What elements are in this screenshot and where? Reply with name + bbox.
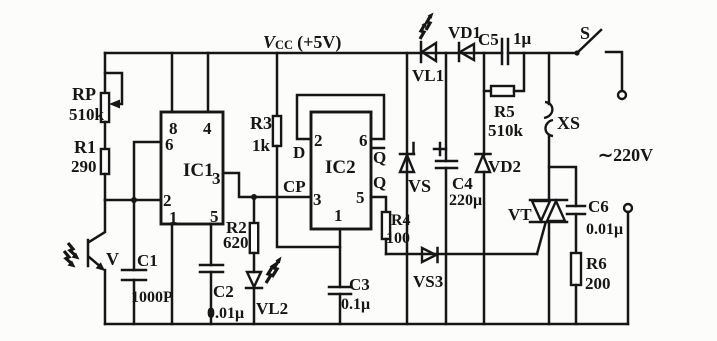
LED VL2 emission arrow 2 head bbox=[276, 257, 282, 264]
wire triac VT to ground rail bbox=[548, 222, 551, 324]
wire VD2 to ground rail bbox=[483, 172, 486, 324]
wire switch fixed contact bbox=[606, 52, 622, 91]
triac VT triangle down bbox=[532, 201, 550, 221]
LED VL2 cathode bar bbox=[246, 287, 262, 290]
diode VS3 cathode bar bbox=[436, 248, 439, 262]
svg-text:3: 3 bbox=[313, 190, 322, 209]
svg-text:1000P: 1000P bbox=[131, 289, 173, 306]
capacitor C5 plates bbox=[502, 39, 508, 64]
svg-text:VS3: VS3 bbox=[413, 272, 443, 291]
svg-text:CP: CP bbox=[283, 177, 306, 196]
triac VT bottom bar bbox=[530, 221, 567, 224]
wire IC2 pin 1 to C3 bbox=[339, 229, 342, 287]
wire gate line horizontal bbox=[386, 253, 537, 256]
wire VL2 to ground rail bbox=[253, 288, 256, 324]
svg-text:4: 4 bbox=[203, 119, 212, 138]
wire branch to C6 bbox=[549, 167, 576, 206]
svg-text:VCC(+5V): VCC(+5V) bbox=[263, 32, 341, 53]
svg-text:C5: C5 bbox=[478, 30, 499, 49]
thyristor VS triangle bbox=[400, 155, 414, 172]
diode VD1 triangle bbox=[460, 44, 474, 60]
junction output node dot bbox=[251, 194, 257, 200]
wire feedback loop Q-bar to D bbox=[297, 95, 384, 139]
diode VD2 cathode bar bbox=[476, 153, 491, 156]
wire RP to R1 bbox=[104, 122, 107, 149]
socket XS lower hook bbox=[546, 120, 554, 136]
thyristor VS cathode bar bbox=[400, 153, 414, 156]
wire VD2 top bbox=[483, 53, 486, 155]
resistor R2 body bbox=[250, 223, 258, 253]
svg-text:0.01μ: 0.01μ bbox=[586, 221, 623, 238]
wire XS top bbox=[548, 53, 551, 104]
wire XS to triac VT bbox=[548, 135, 551, 200]
LED VL1 cathode bar bbox=[420, 42, 423, 62]
svg-text:290: 290 bbox=[71, 157, 97, 176]
svg-text:VT: VT bbox=[508, 205, 532, 224]
resistor R5 body bbox=[491, 86, 514, 96]
socket XS upper hook bbox=[544, 102, 552, 118]
op-amp IC2 box (D flip-flop) bbox=[311, 112, 371, 229]
svg-text:Q: Q bbox=[373, 148, 386, 167]
svg-text:R1: R1 bbox=[74, 137, 96, 157]
svg-text:1k: 1k bbox=[252, 136, 271, 155]
op-amp IC1 box (555 timer) bbox=[161, 112, 223, 224]
svg-text:V: V bbox=[106, 249, 119, 269]
diode VS3 triangle bbox=[422, 248, 436, 262]
svg-text:1μ: 1μ bbox=[513, 29, 532, 48]
triac VT top bar bbox=[530, 199, 567, 202]
phototransistor V base bar bbox=[87, 240, 90, 266]
svg-text:C1: C1 bbox=[137, 251, 158, 270]
svg-text:510k: 510k bbox=[488, 121, 524, 140]
LED VL2 emission arrow 2 bbox=[272, 260, 279, 277]
svg-text:0.1μ: 0.1μ bbox=[341, 296, 370, 313]
thyristor VS vertical wire bbox=[406, 53, 409, 324]
svg-text:620: 620 bbox=[223, 233, 249, 252]
terminal circle mains top bbox=[618, 91, 626, 99]
overbar of Q-bar bbox=[372, 147, 384, 150]
svg-text:R5: R5 bbox=[494, 102, 515, 121]
resistor R5 left lead bbox=[484, 90, 491, 93]
svg-text:C3: C3 bbox=[349, 275, 370, 294]
capacitor C2 plates bbox=[200, 265, 223, 272]
resistor R4 body bbox=[382, 212, 390, 239]
svg-text:RP: RP bbox=[72, 84, 96, 104]
svg-text:VL1: VL1 bbox=[412, 66, 444, 85]
wire R6 to ground rail bbox=[575, 285, 578, 324]
svg-text:6: 6 bbox=[359, 131, 368, 150]
switch S pivot dot bbox=[574, 50, 579, 55]
phototransistor V light arrow 1 head bbox=[72, 253, 80, 260]
LED VL1 emission arrow 1 bbox=[426, 15, 431, 30]
resistor R5 right lead bbox=[514, 53, 524, 91]
diode VD1 cathode bar bbox=[458, 43, 461, 61]
svg-text:R6: R6 bbox=[586, 254, 607, 273]
svg-text:VD2: VD2 bbox=[488, 157, 521, 176]
wire node A up to IC1 pin 6 bbox=[134, 142, 161, 200]
LED VL1 emission arrow 2 head bbox=[422, 22, 428, 28]
svg-text:C6: C6 bbox=[588, 197, 609, 216]
wire R2 to VL2 bbox=[253, 253, 256, 272]
LED VL1 triangle bbox=[422, 43, 436, 61]
resistor R6 body bbox=[571, 253, 581, 285]
wire C3 to ground rail bbox=[339, 294, 342, 324]
wire emitter to ground rail bbox=[104, 270, 107, 324]
svg-text:VD1: VD1 bbox=[448, 23, 481, 42]
svg-text:0.01μ: 0.01μ bbox=[207, 305, 244, 322]
svg-text:6: 6 bbox=[165, 135, 174, 154]
wire C4 to ground rail bbox=[445, 168, 448, 324]
svg-text:1: 1 bbox=[334, 206, 343, 225]
wire output node to R2 bbox=[253, 197, 256, 223]
svg-text:3: 3 bbox=[212, 169, 221, 188]
svg-text:∼220V: ∼220V bbox=[598, 145, 653, 165]
LED VL1 emission arrow 2 bbox=[420, 24, 425, 39]
phototransistor V light arrow 2 bbox=[64, 251, 72, 264]
junction node A dot bbox=[131, 197, 137, 203]
phototransistor V light arrow 2 head bbox=[68, 261, 76, 268]
potentiometer RP wiper arrowhead bbox=[109, 100, 120, 109]
wire IC2 pin 5 Q to R4 bbox=[371, 197, 386, 212]
svg-text:XS: XS bbox=[557, 113, 580, 133]
svg-text:R3: R3 bbox=[250, 113, 272, 133]
potentiometer RP body bbox=[101, 93, 109, 122]
wire C1 to ground rail bbox=[133, 280, 136, 324]
svg-text:C2: C2 bbox=[213, 282, 234, 301]
wire C4 top bbox=[445, 53, 448, 161]
wire gate diagonal to triac bbox=[537, 223, 546, 254]
capacitor C4 plus sign bbox=[434, 143, 446, 155]
wire R1 to node A bbox=[104, 174, 107, 200]
svg-text:IC1: IC1 bbox=[183, 160, 214, 181]
wire Vcc top rail right segment bbox=[508, 52, 578, 55]
potentiometer RP wiper wire bbox=[105, 73, 122, 104]
LED VL2 emission arrow 1 bbox=[266, 266, 273, 283]
wire C2 to ground rail bbox=[210, 272, 213, 324]
svg-text:S: S bbox=[580, 23, 590, 43]
switch S blade bbox=[577, 30, 601, 53]
wire mains bottom terminal to ground rail bbox=[627, 212, 630, 324]
svg-text:C4: C4 bbox=[452, 174, 473, 193]
wire IC1 pin 8 to Vcc bbox=[171, 53, 174, 112]
svg-text:200: 200 bbox=[585, 274, 611, 293]
svg-text:IC2: IC2 bbox=[325, 157, 356, 178]
triac VT triangle up bbox=[547, 201, 565, 221]
phototransistor V collector wire bbox=[89, 200, 105, 242]
resistor R3 body bbox=[273, 116, 281, 146]
wire left vertical top bbox=[104, 53, 107, 93]
capacitor C3 plates bbox=[329, 287, 351, 294]
terminal circle mains bottom bbox=[624, 204, 632, 212]
svg-text:D: D bbox=[293, 143, 305, 162]
phototransistor V emitter wire bbox=[89, 257, 102, 268]
LED VL1 emission arrow 1 head bbox=[428, 13, 434, 19]
LED VL2 emission arrow 1 head bbox=[270, 263, 276, 270]
svg-text:220μ: 220μ bbox=[449, 192, 482, 209]
svg-text:510k: 510k bbox=[69, 105, 105, 124]
wire R3 to IC2 pin 1 and C3 bbox=[277, 146, 340, 247]
wire C6 to R6 bbox=[575, 214, 578, 253]
capacitor C6 plates bbox=[567, 206, 585, 214]
capacitor C4 plates bbox=[436, 161, 457, 168]
wire bottom ground rail bbox=[105, 323, 628, 326]
svg-text:VL2: VL2 bbox=[256, 299, 288, 318]
wire node A down to C1 bbox=[133, 200, 136, 270]
svg-text:VS: VS bbox=[408, 176, 431, 196]
phototransistor V light arrow 1 bbox=[68, 243, 76, 256]
svg-text:5: 5 bbox=[356, 188, 365, 207]
thyristor VS gate hook bbox=[412, 143, 415, 154]
svg-text:Q: Q bbox=[373, 173, 386, 192]
wire IC1 pin 5 to C2 bbox=[210, 224, 213, 265]
capacitor C1 plates bbox=[122, 270, 146, 280]
wire Vcc top rail left segment bbox=[105, 52, 502, 55]
LED VL2 triangle bbox=[247, 272, 261, 287]
resistor R1 body bbox=[101, 149, 109, 174]
diode VD2 triangle bbox=[476, 155, 490, 172]
wire IC1 pin 4 to Vcc bbox=[207, 53, 210, 112]
svg-text:2: 2 bbox=[314, 131, 323, 150]
resistor R3 top wire bbox=[276, 53, 279, 116]
phototransistor V emitter arrowhead bbox=[96, 262, 105, 271]
wire node A to IC1 pin 2 bbox=[105, 199, 161, 202]
wire IC1 pin 1 to ground rail bbox=[171, 224, 174, 324]
wire IC1 pin 3 output to IC2 CP bbox=[223, 173, 311, 197]
wire R4 to gate line bbox=[385, 239, 388, 254]
